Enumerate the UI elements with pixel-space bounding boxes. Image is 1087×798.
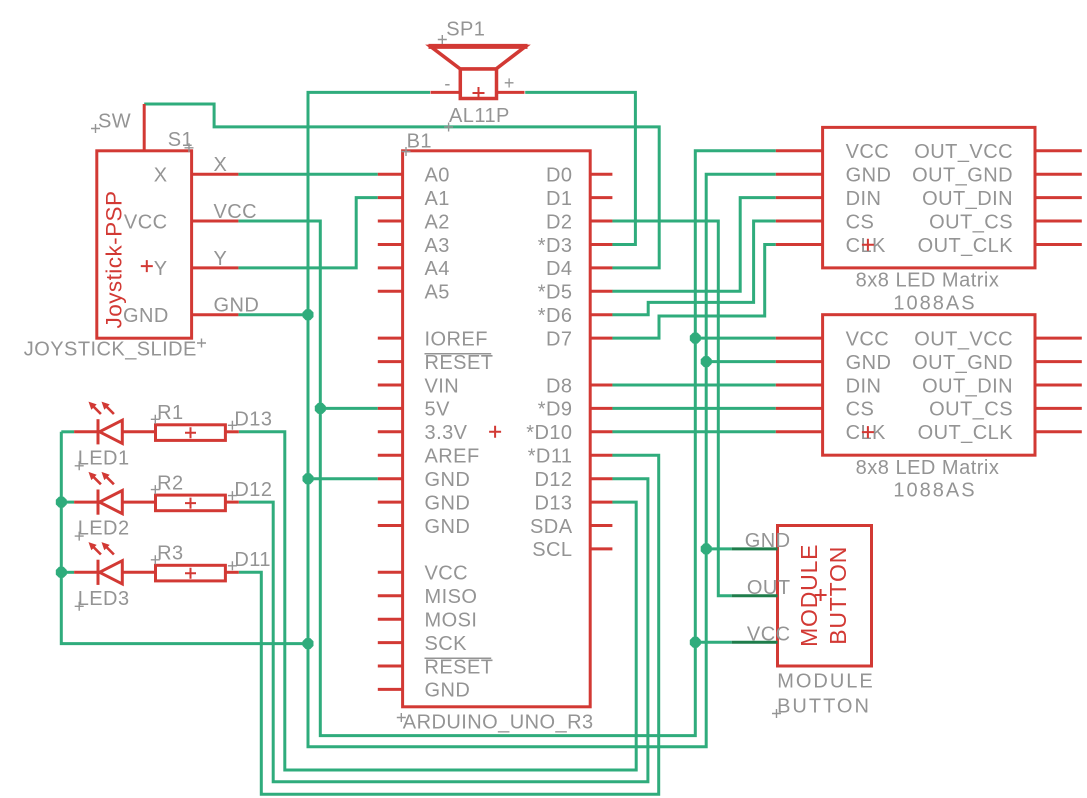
svg-text:ARDUINO_UNO_R3: ARDUINO_UNO_R3	[403, 712, 594, 734]
svg-text:A0: A0	[425, 165, 450, 187]
svg-text:5V: 5V	[425, 399, 451, 421]
wire net GND main run (speaker minus to matrix1 GND)	[308, 92, 776, 746]
svg-text:DIN: DIN	[846, 188, 882, 210]
wire net D13 (R1 to arduino D13)	[239, 432, 636, 770]
svg-text:AL11P: AL11P	[449, 105, 510, 127]
svg-text:A4: A4	[425, 258, 450, 280]
svg-text:A2: A2	[425, 211, 450, 233]
svg-text:D7: D7	[546, 328, 572, 350]
svg-text:8x8 LED Matrix: 8x8 LED Matrix	[856, 270, 1000, 292]
svg-text:A5: A5	[425, 282, 450, 304]
joystick S1	[97, 104, 239, 338]
junction arduino GND	[303, 473, 314, 484]
wire net GND stub LED3	[61, 571, 74, 574]
svg-text:D4: D4	[546, 258, 572, 280]
wire net D7 to matrix1 CLK	[612, 245, 776, 339]
wire net SW (joystick SW to D4)	[144, 104, 659, 268]
svg-text:*D5: *D5	[538, 282, 573, 304]
svg-text:CS: CS	[846, 211, 875, 233]
svg-text:A1: A1	[425, 188, 450, 210]
svg-text:R2: R2	[157, 472, 183, 494]
svg-text:D11: D11	[234, 549, 271, 571]
svg-text:JOYSTICK_SLIDE: JOYSTICK_SLIDE	[24, 338, 197, 360]
svg-text:D12: D12	[234, 479, 272, 501]
resistor R2	[156, 495, 239, 511]
svg-text:OUT_VCC: OUT_VCC	[914, 141, 1013, 163]
svg-text:OUT_VCC: OUT_VCC	[914, 328, 1013, 350]
svg-text:VCC: VCC	[425, 563, 469, 585]
module button S2	[732, 526, 872, 667]
svg-text:GND: GND	[745, 530, 791, 552]
svg-text:X: X	[154, 165, 168, 187]
svg-text:OUT_GND: OUT_GND	[912, 352, 1013, 374]
arduino U1 B1 box	[378, 151, 613, 707]
svg-text:D1: D1	[546, 188, 572, 210]
svg-text:SCK: SCK	[425, 633, 468, 655]
svg-text:3.3V: 3.3V	[425, 422, 468, 444]
svg-text:D13: D13	[534, 492, 572, 514]
svg-text:CS: CS	[846, 399, 875, 421]
wire net D11 (R3 to arduino D11)	[239, 455, 659, 794]
svg-text:B1: B1	[407, 131, 432, 153]
svg-text:*D11: *D11	[528, 446, 573, 468]
svg-text:VIN: VIN	[425, 375, 460, 397]
svg-text:OUT_DIN: OUT_DIN	[922, 188, 1013, 210]
wire net A1 (joystick Y to A1)	[238, 198, 377, 268]
svg-text:*D3: *D3	[538, 235, 573, 257]
LED LED3	[74, 542, 155, 585]
svg-text:+: +	[504, 73, 515, 93]
wire net GND stub LED1	[61, 430, 74, 433]
LED LED1	[74, 402, 155, 445]
svg-text:D8: D8	[546, 375, 572, 397]
svg-text:MISO: MISO	[425, 586, 478, 608]
wire net D12 (R2 to arduino D12)	[239, 479, 648, 782]
svg-text:D2: D2	[546, 211, 572, 233]
svg-text:RESET: RESET	[425, 656, 494, 678]
svg-text:-: -	[444, 74, 450, 94]
wire net OUT (D2 to module OUT)	[612, 221, 732, 596]
svg-text:BUTTON: BUTTON	[825, 546, 851, 645]
wire net VCC branch module VCC	[695, 641, 731, 644]
svg-text:SP1: SP1	[446, 19, 485, 41]
svg-text:VCC: VCC	[747, 623, 791, 645]
svg-text:MOSI: MOSI	[425, 610, 478, 632]
svg-text:SDA: SDA	[530, 516, 573, 538]
svg-text:OUT_CS: OUT_CS	[929, 399, 1013, 421]
svg-text:GND: GND	[425, 516, 471, 538]
svg-text:GND: GND	[425, 492, 471, 514]
wire net D6 to matrix1 CS	[612, 221, 776, 315]
svg-text:BUTTON: BUTTON	[777, 695, 871, 717]
wire net D9 to matrix2 CS	[612, 407, 776, 410]
svg-text:OUT_CS: OUT_CS	[929, 211, 1013, 233]
wire net X (joystick X to A0)	[238, 173, 377, 176]
svg-text:LED2: LED2	[78, 518, 130, 540]
wire net GND branch joystick GND	[238, 313, 308, 316]
8x8 LED matrix matrix U3 1088AS	[776, 315, 1082, 456]
svg-text:LED1: LED1	[78, 447, 130, 469]
LED LED2	[74, 472, 155, 515]
wire net VCC branch matrix2 VCC	[695, 337, 776, 340]
svg-text:GND: GND	[846, 165, 892, 187]
svg-text:X: X	[214, 154, 228, 176]
resistor R3	[156, 565, 239, 581]
svg-text:D12: D12	[534, 469, 572, 491]
svg-text:IOREF: IOREF	[425, 328, 488, 350]
wire net VCC branch 5V	[320, 407, 378, 410]
svg-text:AREF: AREF	[425, 446, 480, 468]
svg-text:OUT_GND: OUT_GND	[912, 165, 1013, 187]
wire net GND branch LED commons	[61, 432, 308, 644]
junction LED common GND	[303, 638, 314, 649]
wire net VCC main run	[238, 151, 775, 736]
svg-text:OUT_CLK: OUT_CLK	[918, 235, 1014, 257]
svg-text:OUT: OUT	[747, 577, 791, 599]
junction matrix2 VCC	[690, 333, 701, 344]
svg-text:SCL: SCL	[532, 539, 572, 561]
svg-text:SW: SW	[98, 111, 131, 133]
svg-text:VCC: VCC	[846, 328, 890, 350]
svg-text:GND: GND	[214, 295, 260, 317]
wire net GND branch matrix2 GND	[706, 360, 776, 363]
junction module GND	[701, 543, 712, 554]
svg-text:8x8 LED Matrix: 8x8 LED Matrix	[856, 457, 1000, 479]
wire net SP+ (speaker plus to D3)	[525, 92, 635, 244]
svg-text:GND: GND	[425, 680, 471, 702]
resistor R1	[156, 425, 239, 441]
svg-text:GND: GND	[123, 305, 169, 327]
svg-text:*D9: *D9	[538, 399, 573, 421]
wire net D5 to matrix1 DIN	[612, 198, 776, 292]
8x8 LED matrix matrix U2 1088AS	[776, 127, 1082, 268]
svg-text:*D6: *D6	[538, 305, 573, 327]
svg-text:LED3: LED3	[78, 588, 130, 610]
svg-text:DIN: DIN	[846, 375, 882, 397]
svg-text:VCC: VCC	[846, 141, 890, 163]
junction LED3 common	[56, 567, 67, 578]
svg-text:*D10: *D10	[526, 422, 572, 444]
svg-text:GND: GND	[425, 469, 471, 491]
wire net GND branch module GND	[706, 547, 732, 550]
wire net D10 to matrix2 CLK	[612, 430, 776, 433]
svg-text:D0: D0	[546, 165, 572, 187]
svg-text:OUT_DIN: OUT_DIN	[922, 375, 1013, 397]
svg-text:OUT_CLK: OUT_CLK	[918, 422, 1014, 444]
svg-text:Y: Y	[154, 258, 168, 280]
svg-text:R3: R3	[157, 543, 183, 565]
svg-text:VCC: VCC	[124, 211, 168, 233]
svg-text:1088AS: 1088AS	[893, 292, 976, 314]
junction 5V	[315, 403, 326, 414]
junction module VCC	[690, 637, 701, 648]
svg-text:A3: A3	[425, 235, 450, 257]
svg-text:R1: R1	[157, 402, 183, 424]
junction joystick GND	[303, 309, 314, 320]
svg-text:MODULE: MODULE	[777, 670, 875, 692]
wire net GND branch arduino GND	[308, 477, 378, 480]
svg-text:RESET: RESET	[425, 352, 494, 374]
svg-text:GND: GND	[846, 352, 892, 374]
speaker SP1	[429, 46, 528, 99]
wire net D8 to matrix2 DIN	[612, 384, 776, 387]
svg-text:1088AS: 1088AS	[893, 480, 976, 502]
wire net GND stub LED2	[61, 501, 74, 504]
junction matrix2 GND	[701, 356, 712, 367]
svg-text:VCC: VCC	[214, 201, 258, 223]
junction LED2 common	[56, 497, 67, 508]
svg-text:Y: Y	[214, 248, 228, 270]
svg-text:D13: D13	[234, 409, 272, 431]
